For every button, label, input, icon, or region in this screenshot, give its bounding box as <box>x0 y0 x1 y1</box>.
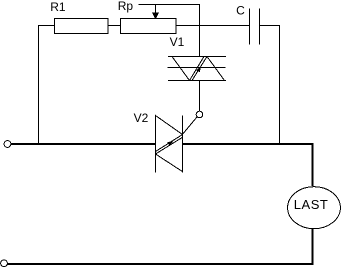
load LAST circle <box>288 187 341 229</box>
wire bottom <box>7 263 314 265</box>
capacitor C <box>250 8 260 44</box>
wire LAST bottom <box>312 229 314 264</box>
resistor R1 <box>55 19 109 34</box>
svg-text:Rp: Rp <box>118 0 134 13</box>
svg-text:LAST: LAST <box>294 197 329 212</box>
svg-text:V1: V1 <box>170 35 185 49</box>
wire gate diagonal <box>183 117 198 135</box>
svg-text:V2: V2 <box>134 111 149 125</box>
wire main left <box>11 143 156 145</box>
wire left of R1 <box>39 26 55 144</box>
svg-text:R1: R1 <box>50 0 66 14</box>
wire Rp to C <box>176 25 250 27</box>
svg-text:C: C <box>236 4 245 18</box>
node gate terminal circle <box>196 111 203 118</box>
terminal input bottom <box>1 260 8 267</box>
wire V1 bottom to gate node <box>199 81 201 112</box>
wire wiper of Rp <box>139 5 200 57</box>
triac V2 <box>156 115 183 172</box>
wire C to right branch <box>260 26 280 144</box>
terminal input top <box>4 141 11 148</box>
potentiometer Rp <box>121 5 177 34</box>
wire R1 to Rp <box>108 25 121 27</box>
wire main right <box>183 144 313 186</box>
diac V1 <box>168 57 227 81</box>
